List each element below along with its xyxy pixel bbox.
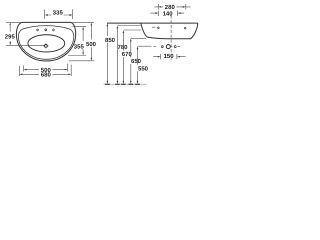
svg-text:780: 780 <box>117 44 128 51</box>
dim 550 (vertical) <box>137 46 139 83</box>
svg-text:280: 280 <box>165 4 176 11</box>
svg-text:500: 500 <box>86 41 97 48</box>
dim 500 (bottom) <box>24 64 68 72</box>
drain circle center <box>166 45 170 49</box>
basin outer outline <box>16 22 75 61</box>
dim 295 (left) <box>6 22 44 45</box>
basin elevation outline <box>141 23 198 39</box>
floor line <box>104 83 147 85</box>
dim 355 (right inner) <box>68 27 86 56</box>
svg-text:850: 850 <box>105 37 116 44</box>
floor hatch <box>105 84 147 87</box>
svg-text:150: 150 <box>164 53 175 60</box>
deck hole right (diamond) <box>52 29 54 31</box>
drain circle small right <box>172 46 181 48</box>
dim 680 (bottom) <box>19 65 71 77</box>
svg-text:335: 335 <box>53 9 64 16</box>
deck hole left (diamond) <box>36 29 38 31</box>
basin inner rim contour <box>18 26 73 60</box>
dim 140 (top) <box>151 11 185 17</box>
svg-text:680: 680 <box>41 72 52 79</box>
dim 670 (vertical) <box>123 30 125 84</box>
ext line 670 <box>123 29 141 31</box>
svg-text:355: 355 <box>74 43 85 50</box>
leader dash to tap hole <box>152 26 156 28</box>
dim 500 (right outer) <box>69 22 94 60</box>
floor dark segments under arrows <box>105 83 140 85</box>
dim 335 (top) <box>45 9 73 19</box>
drain symbol <box>43 43 48 48</box>
centerline (dashed) <box>170 15 172 60</box>
svg-text:140: 140 <box>163 10 174 17</box>
dim 650 (vertical) <box>130 39 132 84</box>
dim 780 (vertical) <box>117 26 119 84</box>
svg-text:650: 650 <box>131 58 142 65</box>
svg-text:550: 550 <box>138 65 149 72</box>
leader dash left of circles <box>153 46 156 48</box>
ext line 650 <box>131 37 146 39</box>
dim 150 (bottom) <box>153 54 186 59</box>
tap hole center (circle) <box>45 29 47 31</box>
dim 850 (vertical) <box>107 23 109 84</box>
tap hole left (elevation) <box>158 27 160 29</box>
ext line 550 <box>138 45 152 47</box>
ext line 780 (ledge) <box>118 25 141 27</box>
wall / basin top line <box>107 22 198 24</box>
dim 280 (top) <box>155 4 191 10</box>
tap hole right (elevation) <box>184 27 186 29</box>
drain circle small left <box>161 46 163 48</box>
svg-text:295: 295 <box>5 34 16 41</box>
bowl <box>28 35 65 52</box>
